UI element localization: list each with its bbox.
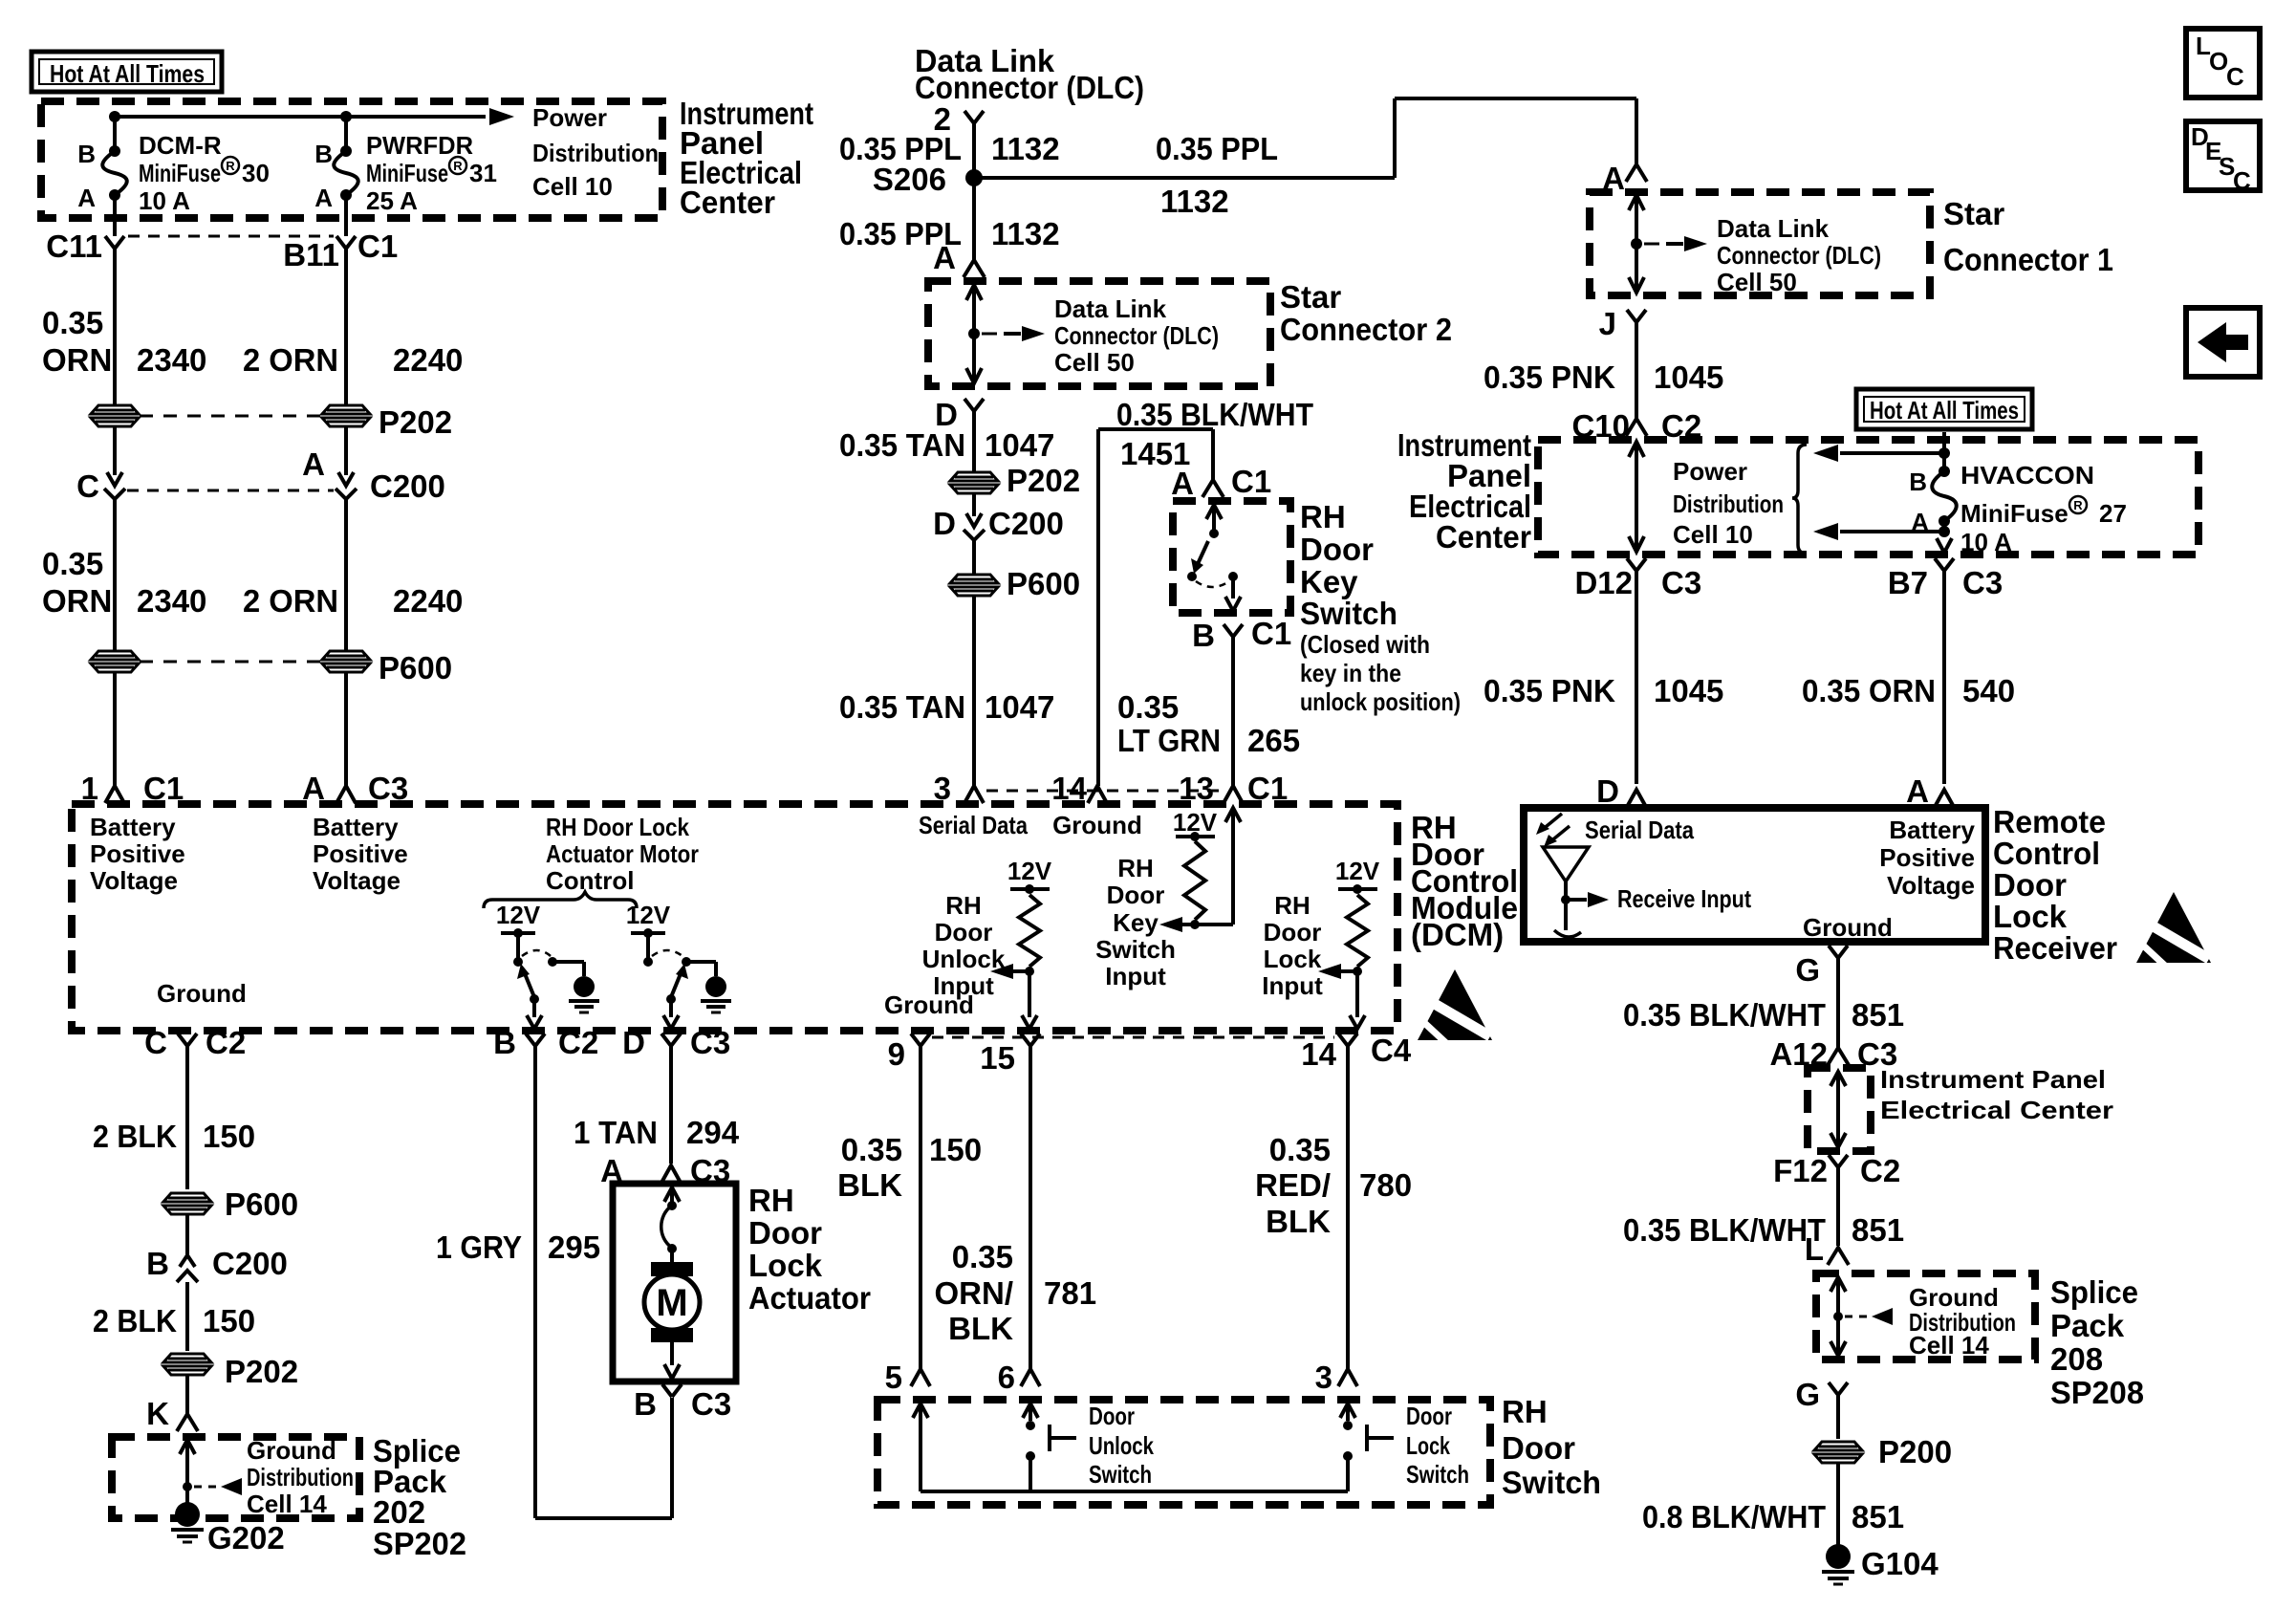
connector DLC pin 2 bbox=[934, 101, 984, 137]
connector C3 pin B7 bbox=[1888, 558, 2003, 600]
module label: Star Connector 2 bbox=[1280, 279, 1452, 347]
svg-text:A: A bbox=[933, 240, 956, 275]
module label: RH Door Lock Actuator bbox=[748, 1183, 871, 1316]
svg-text:Connector 1: Connector 1 bbox=[1943, 242, 2113, 277]
fuse F27 HVACCON MiniFuse 27 10A bbox=[1909, 432, 2127, 556]
wire 0.35 PNK 1045 (upper) bbox=[1484, 322, 1723, 419]
svg-text:2240: 2240 bbox=[393, 342, 463, 378]
module box: RH Door Switch (dashed) bbox=[877, 1400, 1490, 1505]
inline connector P600 (wire 150) bbox=[163, 1186, 298, 1222]
svg-text:R: R bbox=[226, 159, 235, 173]
svg-text:Input: Input bbox=[1262, 971, 1323, 1000]
connector pin J bbox=[1599, 306, 1646, 341]
svg-text:C3: C3 bbox=[1962, 565, 2003, 600]
svg-text:Switch: Switch bbox=[1300, 596, 1397, 631]
svg-text:B: B bbox=[77, 140, 96, 168]
svg-text:Receive Input: Receive Input bbox=[1617, 884, 1751, 913]
svg-text:B: B bbox=[146, 1246, 169, 1281]
annotation arrow: Receive Input bbox=[1561, 884, 1751, 913]
key switch internals bbox=[1187, 505, 1241, 611]
svg-text:Connector (DLC): Connector (DLC) bbox=[915, 70, 1144, 105]
svg-text:Key: Key bbox=[1300, 564, 1358, 599]
wire 0.35 ORN 540 to receiver pin A bbox=[1802, 571, 2015, 809]
resistor: RH door key switch input pull-up bbox=[1159, 808, 1241, 932]
label: RH Door Lock Actuator Motor Control bbox=[546, 813, 699, 895]
svg-text:Power: Power bbox=[532, 103, 607, 132]
svg-text:Star: Star bbox=[1943, 196, 2004, 231]
fuse F27 output arrow (bottom) bbox=[1813, 523, 1950, 540]
junction: fuse 31 feed bbox=[340, 111, 352, 122]
svg-text:0.35 BLK/WHT: 0.35 BLK/WHT bbox=[1116, 397, 1313, 432]
ground G202 bbox=[171, 1502, 285, 1556]
svg-text:(Closed with: (Closed with bbox=[1300, 630, 1430, 659]
svg-text:150: 150 bbox=[203, 1303, 255, 1338]
svg-text:Input: Input bbox=[1105, 962, 1166, 990]
svg-text:R: R bbox=[2073, 498, 2083, 512]
svg-text:Voltage: Voltage bbox=[90, 866, 178, 895]
nav box LOC bbox=[2186, 29, 2260, 98]
ESD symbol (receiver) bbox=[2136, 892, 2211, 967]
svg-text:unlock position): unlock position) bbox=[1300, 687, 1461, 716]
svg-text:Positive: Positive bbox=[313, 839, 408, 868]
power label box: Hot At All Times (right) bbox=[1856, 389, 2032, 429]
connector C1 pin B (key switch out) bbox=[1192, 616, 1291, 653]
svg-text:1047: 1047 bbox=[985, 427, 1054, 463]
svg-text:B: B bbox=[1909, 468, 1927, 496]
connector C4 pin 15 bbox=[980, 1033, 1040, 1076]
svg-text:Battery: Battery bbox=[90, 813, 176, 841]
svg-text:C2: C2 bbox=[558, 1025, 598, 1060]
resistor: RH door lock input pull-up bbox=[1318, 857, 1380, 1029]
label 12V (lock driver) bbox=[496, 901, 541, 929]
wire: switch common bus bbox=[913, 1403, 1348, 1491]
connector C1 pin C11 bbox=[46, 228, 124, 264]
wire into DCM pin A C3 bbox=[302, 672, 408, 806]
annotation arrow: Ground Distribution Cell 14 (SP202) bbox=[194, 1436, 354, 1518]
svg-text:C1: C1 bbox=[1231, 464, 1271, 499]
svg-text:Door: Door bbox=[1089, 1402, 1135, 1430]
svg-text:0.35: 0.35 bbox=[841, 1132, 902, 1167]
svg-text:202: 202 bbox=[373, 1494, 425, 1530]
connector C200 pin C bbox=[76, 468, 99, 504]
svg-text:C4: C4 bbox=[1371, 1033, 1412, 1068]
wire: bus from fuse 30 feed to Power Distribution arrow bbox=[115, 108, 514, 125]
svg-text:B: B bbox=[634, 1386, 657, 1422]
svg-text:RED/: RED/ bbox=[1255, 1167, 1331, 1203]
svg-text:C: C bbox=[2233, 166, 2251, 195]
connector C4 pin 9 bbox=[888, 1033, 930, 1072]
svg-text:D12: D12 bbox=[1574, 565, 1633, 600]
svg-text:B: B bbox=[314, 140, 333, 168]
svg-text:M: M bbox=[656, 1282, 687, 1324]
connector C3 pin G (receiver ground out) bbox=[1795, 946, 1848, 988]
wire 2 BLK 150 (upper) bbox=[93, 1046, 255, 1189]
svg-text:Voltage: Voltage bbox=[1887, 871, 1975, 900]
wire 0.35 PPL 1132 (S206 down to Star Connector 2) bbox=[839, 178, 1060, 260]
switch: Door Lock Switch bbox=[1340, 1402, 1469, 1491]
svg-text:K: K bbox=[146, 1396, 169, 1431]
svg-text:27: 27 bbox=[2099, 499, 2127, 528]
module label: Splice Pack 202 SP202 bbox=[373, 1433, 466, 1561]
svg-text:Pack: Pack bbox=[2050, 1308, 2125, 1343]
svg-text:Door: Door bbox=[1993, 867, 2067, 903]
svg-text:1132: 1132 bbox=[1160, 184, 1229, 219]
wire 0.35 PPL 1132 (S206 to Star Connector 1) bbox=[974, 98, 1636, 219]
label 12V (unlock driver) bbox=[626, 901, 671, 929]
ground G104 bbox=[1822, 1544, 1939, 1584]
svg-text:10 A: 10 A bbox=[1960, 528, 2012, 556]
module label: Remote Control Door Lock Receiver bbox=[1993, 804, 2117, 966]
svg-text:C1: C1 bbox=[1251, 616, 1291, 651]
svg-text:ORN: ORN bbox=[42, 342, 112, 378]
connector C3 pin B (actuator) bbox=[634, 1384, 731, 1422]
svg-text:ORN: ORN bbox=[42, 583, 112, 619]
actuator wire to pin B bbox=[664, 1342, 680, 1379]
connector C2 pin B (DCM bottom) bbox=[493, 1025, 598, 1060]
svg-text:Switch: Switch bbox=[1406, 1460, 1469, 1489]
inline connector P202 (wire 150) bbox=[163, 1354, 298, 1389]
svg-text:D: D bbox=[622, 1025, 645, 1060]
wire: fuse 30 output to connector C1 pin C11 bbox=[113, 195, 117, 236]
svg-text:25 A: 25 A bbox=[366, 186, 418, 215]
svg-text:P200: P200 bbox=[1878, 1434, 1952, 1469]
svg-text:C2: C2 bbox=[1860, 1153, 1900, 1188]
label: DCM pin 14 (top) bbox=[1051, 771, 1087, 806]
svg-text:15: 15 bbox=[980, 1040, 1015, 1076]
svg-text:Battery: Battery bbox=[1889, 816, 1975, 844]
svg-text:P600: P600 bbox=[1007, 566, 1080, 601]
svg-text:C: C bbox=[2226, 62, 2244, 91]
svg-text:P202: P202 bbox=[1007, 463, 1080, 498]
svg-text:SP208: SP208 bbox=[2050, 1375, 2144, 1410]
svg-text:150: 150 bbox=[203, 1119, 255, 1154]
svg-text:B: B bbox=[1192, 618, 1215, 653]
module box: RH Door Lock Actuator bbox=[613, 1184, 736, 1382]
svg-text:Hot At All Times: Hot At All Times bbox=[50, 59, 205, 88]
nav box back arrow bbox=[2186, 308, 2260, 377]
svg-text:Remote: Remote bbox=[1993, 804, 2106, 839]
wire segment to C200 (2340) bbox=[104, 426, 125, 499]
svg-text:Lock: Lock bbox=[1406, 1431, 1450, 1460]
fuse F31 PWRFDR MiniFuse 31 25A bbox=[314, 117, 497, 215]
svg-text:1047: 1047 bbox=[985, 689, 1054, 725]
wire 0.35 BLK/WHT 851 (upper) bbox=[1623, 958, 1904, 1048]
label: Serial Data (receiver) bbox=[1585, 816, 1694, 844]
wire 2 ORN 2240 (upper segment) bbox=[243, 249, 463, 405]
label: Battery Positive Voltage (DCM pin 1) bbox=[90, 813, 185, 895]
svg-text:780: 780 bbox=[1359, 1167, 1412, 1203]
label: Power Distribution Cell 10 (right) bbox=[1673, 457, 1784, 549]
svg-text:31: 31 bbox=[469, 159, 497, 187]
label: Instrument Panel Electrical Center (middle right aligned) bbox=[1397, 427, 1531, 555]
svg-text:Ground: Ground bbox=[157, 979, 247, 1008]
svg-text:LT GRN: LT GRN bbox=[1117, 723, 1221, 758]
svg-text:540: 540 bbox=[1962, 673, 2015, 708]
svg-text:G202: G202 bbox=[207, 1520, 285, 1556]
switch: door lock actuator driver 2 bbox=[631, 928, 716, 1029]
svg-text:Door: Door bbox=[1264, 918, 1322, 946]
svg-text:0.35 TAN: 0.35 TAN bbox=[839, 689, 965, 725]
svg-text:A: A bbox=[1171, 466, 1194, 501]
label: Serial Data (DCM pin 3) bbox=[919, 811, 1028, 839]
svg-text:PWRFDR: PWRFDR bbox=[366, 131, 473, 160]
wire 2 ORN 2240 (lower segment) bbox=[243, 499, 463, 651]
svg-text:Cell 14: Cell 14 bbox=[1909, 1331, 1989, 1360]
svg-text:0.35 TAN: 0.35 TAN bbox=[839, 427, 965, 463]
svg-text:Data Link: Data Link bbox=[1717, 214, 1830, 243]
svg-text:Ground: Ground bbox=[247, 1436, 336, 1465]
wire 0.35 TAN 1047 (upper) bbox=[839, 411, 1054, 472]
svg-text:Control: Control bbox=[546, 866, 634, 895]
svg-text:Switch: Switch bbox=[1502, 1465, 1601, 1500]
svg-text:Voltage: Voltage bbox=[313, 866, 401, 895]
module box: Remote Control Door Lock Receiver bbox=[1524, 808, 1985, 942]
label: RH Door Lock Input bbox=[1262, 891, 1323, 1000]
connector pin 6 (door switch) bbox=[998, 1360, 1040, 1395]
svg-text:S206: S206 bbox=[873, 162, 946, 197]
connector pin K (splice pack) bbox=[146, 1375, 198, 1431]
connector pin A (star connector 2) bbox=[933, 240, 985, 277]
inline connector P202 (wire 2340) bbox=[91, 405, 139, 426]
svg-text:Unlock: Unlock bbox=[1089, 1431, 1154, 1460]
svg-text:Switch: Switch bbox=[1095, 935, 1176, 964]
svg-text:0.35 PNK: 0.35 PNK bbox=[1484, 673, 1615, 708]
wire 0.35 ORN 2340 (upper segment) bbox=[42, 249, 206, 405]
connector C1 pin B11 bbox=[283, 195, 356, 272]
module box: Ground Distribution Cell 14 / SP208 (dashed) bbox=[1816, 1273, 2035, 1360]
resistor: RH door unlock input pull-up bbox=[990, 857, 1052, 1029]
svg-text:1132: 1132 bbox=[991, 131, 1060, 166]
wire 1 GRY 295 (DCM pin B to actuator pin B) bbox=[436, 1046, 672, 1518]
svg-text:851: 851 bbox=[1852, 1499, 1904, 1534]
svg-text:0.35 BLK/WHT: 0.35 BLK/WHT bbox=[1623, 1212, 1826, 1248]
svg-text:0.35 PPL: 0.35 PPL bbox=[1156, 131, 1278, 166]
svg-text:Unlock: Unlock bbox=[922, 945, 1006, 973]
wire 0.35 TAN 1047 (lower) into DCM pin 3 bbox=[839, 596, 1054, 806]
fuse F27 down arrow to pin B7 bbox=[1937, 538, 1952, 553]
svg-text:Center: Center bbox=[680, 185, 775, 220]
antenna symbol (receiver) bbox=[1536, 814, 1589, 937]
connector pin L (splice pack 208) bbox=[1805, 1231, 1849, 1267]
connector pin 5 (door switch) bbox=[885, 1360, 930, 1395]
svg-text:A: A bbox=[77, 184, 96, 212]
svg-text:6: 6 bbox=[998, 1360, 1015, 1395]
label: C1 (top) bbox=[357, 228, 398, 264]
connector C2 pin C (DCM bottom) bbox=[144, 1025, 246, 1060]
svg-text:Serial Data: Serial Data bbox=[1585, 816, 1694, 844]
svg-text:J: J bbox=[1599, 306, 1616, 341]
wire to P200 bbox=[1836, 1394, 1840, 1439]
brace: power distribution feeds bbox=[1792, 445, 1807, 554]
wire 0.35 PNK 1045 (lower) to receiver pin D bbox=[1484, 571, 1723, 809]
svg-text:12V: 12V bbox=[1335, 857, 1380, 885]
svg-text:Lock: Lock bbox=[748, 1248, 823, 1283]
inline connector P600 (wire 2240) and label bbox=[140, 650, 452, 685]
wire 0.8 BLK/WHT 851 (to G104) bbox=[1642, 1464, 1904, 1545]
brace: actuator motor control bbox=[484, 892, 637, 908]
module box: RH Door Control Module DCM (dashed) bbox=[72, 804, 1397, 1031]
switch: RH Door Key Switch (dashed box) bbox=[1173, 501, 1290, 613]
svg-text:30: 30 bbox=[242, 159, 270, 187]
connector C2 pin C10 bbox=[1571, 408, 1701, 444]
wire 0.35 BLK/WHT 851 (middle) bbox=[1623, 1167, 1904, 1248]
power label box: Hot At All Times (left) bbox=[32, 52, 222, 92]
ground symbol (driver 1) bbox=[569, 976, 599, 1012]
svg-text:Door: Door bbox=[1502, 1430, 1575, 1466]
connector C3 pin D (DCM bottom) bbox=[622, 1025, 730, 1060]
svg-text:295: 295 bbox=[548, 1229, 600, 1265]
connector tie line C4 (DCM bottom) bbox=[932, 1036, 1334, 1039]
svg-text:G: G bbox=[1795, 1377, 1820, 1412]
svg-text:Connector (DLC): Connector (DLC) bbox=[1717, 241, 1881, 270]
module label: RH Door Control Module (DCM) bbox=[1411, 810, 1518, 952]
wire 2 BLK 150 (lower) bbox=[93, 1282, 255, 1351]
wire 0.35 ORN/BLK 781 (DCM pin 15 to switch pin 6) bbox=[935, 1046, 1097, 1370]
wire inside Star Connector 2 with junction bbox=[966, 285, 982, 383]
svg-text:DCM-R: DCM-R bbox=[139, 131, 222, 160]
svg-text:C2: C2 bbox=[206, 1025, 246, 1060]
actuator internal wire and coupling bbox=[661, 1187, 680, 1264]
module label: Splice Pack 208 SP208 bbox=[2050, 1274, 2144, 1410]
wire through IP electrical center (pin C10 to D12) bbox=[1629, 442, 1644, 552]
svg-text:RH: RH bbox=[748, 1183, 794, 1218]
wire 0.35 PPL 1132 (DLC to S206) bbox=[839, 123, 1060, 178]
module label: RH Door Key Switch bbox=[1300, 499, 1461, 716]
wire through small IP electrical center bbox=[1830, 1072, 1846, 1147]
inline connector P200 bbox=[1814, 1434, 1952, 1469]
svg-text:Splice: Splice bbox=[2050, 1274, 2138, 1310]
label: Power Distribution Cell 10 (left) bbox=[532, 103, 659, 201]
label: Battery Positive Voltage (receiver) bbox=[1879, 816, 1975, 900]
label: RH Door Unlock Input bbox=[922, 891, 1006, 1000]
svg-text:1045: 1045 bbox=[1654, 359, 1723, 395]
svg-text:5: 5 bbox=[885, 1360, 902, 1395]
svg-text:C: C bbox=[76, 468, 99, 504]
svg-text:RH: RH bbox=[1274, 891, 1310, 920]
junction: fuse 30 feed bbox=[109, 111, 120, 122]
svg-text:2340: 2340 bbox=[137, 583, 206, 619]
motor M (RH door lock actuator) bbox=[644, 1262, 700, 1342]
svg-text:P202: P202 bbox=[379, 404, 452, 440]
svg-text:0.8 BLK/WHT: 0.8 BLK/WHT bbox=[1642, 1499, 1826, 1534]
svg-text:G: G bbox=[1795, 952, 1820, 988]
svg-text:C200: C200 bbox=[212, 1246, 288, 1281]
svg-text:Hot At All Times: Hot At All Times bbox=[1870, 396, 2019, 424]
svg-text:2 ORN: 2 ORN bbox=[243, 583, 338, 619]
svg-text:Distribution: Distribution bbox=[247, 1463, 354, 1491]
connector C2 pin F12 bbox=[1773, 1153, 1900, 1188]
connector C200 pin B (upward) bbox=[146, 1214, 288, 1282]
wire inside SP202 with splice bbox=[180, 1440, 195, 1504]
wire 0.35 BLK 150 (DCM pin 9 to switch pin 5) bbox=[837, 1046, 982, 1370]
svg-text:Key: Key bbox=[1113, 908, 1159, 937]
svg-text:C3: C3 bbox=[690, 1025, 730, 1060]
svg-text:Positive: Positive bbox=[1879, 843, 1975, 872]
connector C3 pin A12 bbox=[1769, 1036, 1897, 1072]
module box: Instrument Panel Electrical Center (left, dashed) bbox=[41, 101, 662, 218]
svg-text:Cell 50: Cell 50 bbox=[1054, 348, 1135, 377]
svg-text:2 BLK: 2 BLK bbox=[93, 1303, 177, 1338]
connector C4 pin 14 bbox=[1301, 1033, 1412, 1072]
svg-text:MiniFuse: MiniFuse bbox=[139, 159, 221, 187]
svg-text:MiniFuse: MiniFuse bbox=[366, 159, 448, 187]
svg-text:0.35: 0.35 bbox=[1117, 689, 1179, 725]
connector pin D (star connector 2 out) bbox=[935, 397, 984, 432]
svg-text:RH: RH bbox=[945, 891, 982, 920]
svg-text:Connector (DLC): Connector (DLC) bbox=[1054, 321, 1219, 350]
svg-text:P600: P600 bbox=[379, 650, 452, 685]
connector C3 pin D12 bbox=[1574, 558, 1701, 600]
svg-text:9: 9 bbox=[888, 1036, 905, 1072]
svg-text:BLK: BLK bbox=[1266, 1204, 1331, 1239]
svg-text:Actuator Motor: Actuator Motor bbox=[546, 839, 699, 868]
svg-text:1045: 1045 bbox=[1654, 673, 1723, 708]
module label: Instrument Panel Electrical Center (left) bbox=[680, 96, 813, 220]
svg-text:key in the: key in the bbox=[1300, 659, 1401, 687]
svg-text:C3: C3 bbox=[1661, 565, 1701, 600]
svg-text:(DCM): (DCM) bbox=[1411, 917, 1504, 952]
svg-text:Door: Door bbox=[1300, 532, 1374, 567]
module label: RH Door Switch bbox=[1502, 1394, 1601, 1500]
switch: door lock actuator driver 1 bbox=[501, 928, 584, 1029]
svg-text:P600: P600 bbox=[225, 1186, 298, 1222]
svg-text:2340: 2340 bbox=[137, 342, 206, 378]
svg-text:Door: Door bbox=[1406, 1402, 1452, 1430]
wire 0.35 RED/BLK 780 (DCM pin 14 to switch pin 3) bbox=[1255, 1046, 1412, 1370]
svg-text:Instrument Panel: Instrument Panel bbox=[1880, 1065, 2106, 1094]
svg-text:Cell 10: Cell 10 bbox=[1673, 520, 1753, 549]
wire 0.35 ORN 2340 (lower segment) bbox=[42, 499, 206, 651]
svg-text:RH Door Lock: RH Door Lock bbox=[546, 813, 689, 841]
connector C200 pin D bbox=[933, 493, 1064, 541]
svg-text:HVACCON: HVACCON bbox=[1960, 461, 2094, 490]
connector pin A (star connector 1) bbox=[1602, 161, 1647, 196]
svg-text:Battery: Battery bbox=[313, 813, 399, 841]
connector tie line C1 (DCM top) bbox=[986, 790, 1220, 793]
svg-text:2 BLK: 2 BLK bbox=[93, 1119, 177, 1154]
label: Ground (DCM pin C) bbox=[157, 979, 247, 1008]
svg-text:Control: Control bbox=[1993, 836, 2100, 871]
svg-text:L: L bbox=[1805, 1231, 1824, 1267]
svg-text:10 A: 10 A bbox=[139, 186, 190, 215]
module label: Instrument Panel Electrical Center (small) bbox=[1880, 1065, 2113, 1124]
annotation arrow: Data Link Connector (DLC) Cell 50 (star 2) bbox=[982, 294, 1219, 377]
svg-text:C11: C11 bbox=[46, 228, 102, 264]
wire 1 TAN 294 (DCM pin D to actuator pin A) bbox=[574, 1046, 740, 1164]
connector C200 pin A and tie bbox=[127, 426, 445, 504]
wire inside SP208 with splice bbox=[1830, 1277, 1846, 1356]
ESD symbol (DCM) bbox=[1418, 969, 1492, 1044]
splice S206 bbox=[873, 162, 983, 197]
annotation arrow: Data Link Connector (DLC) Cell 50 (star 1) bbox=[1644, 214, 1881, 296]
svg-text:12V: 12V bbox=[496, 901, 541, 929]
svg-text:294: 294 bbox=[686, 1115, 740, 1150]
svg-text:Electrical Center: Electrical Center bbox=[1880, 1096, 2113, 1124]
svg-text:851: 851 bbox=[1852, 997, 1904, 1033]
svg-text:1132: 1132 bbox=[991, 216, 1060, 251]
svg-text:BLK: BLK bbox=[948, 1311, 1013, 1346]
svg-text:0.35 PNK: 0.35 PNK bbox=[1484, 359, 1615, 395]
svg-text:Cell 10: Cell 10 bbox=[532, 172, 613, 201]
label: Data Link Connector (DLC) bbox=[915, 43, 1144, 105]
inline connector P600 (wire 1047) bbox=[950, 540, 1080, 601]
svg-text:A: A bbox=[302, 446, 325, 482]
svg-text:C: C bbox=[144, 1025, 167, 1060]
connector tie line C1 (top left) bbox=[128, 235, 334, 238]
svg-text:Power: Power bbox=[1673, 457, 1747, 486]
module box: Star Connector 2 (dashed) bbox=[928, 281, 1270, 386]
connector C3 pin A (actuator) bbox=[600, 1153, 730, 1188]
